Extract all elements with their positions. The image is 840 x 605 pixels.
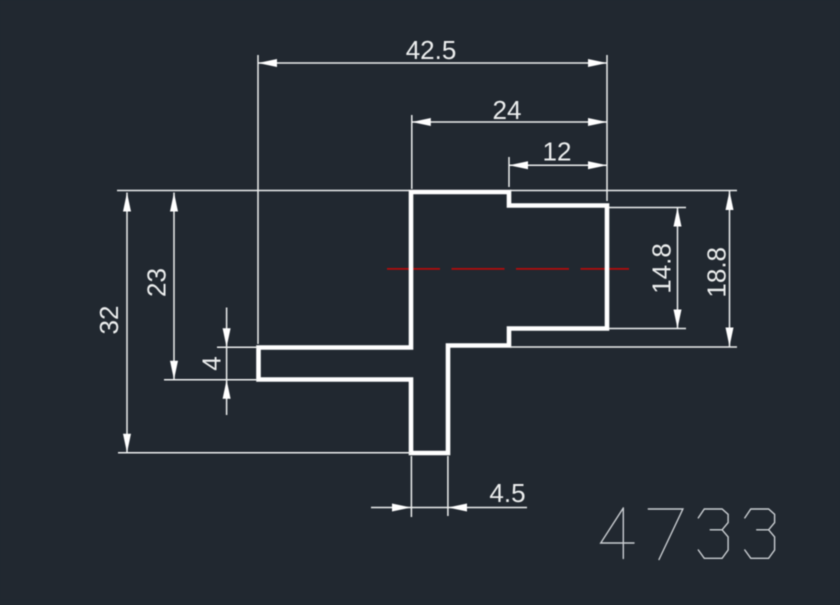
dimension 4 text (rotated)	[197, 356, 227, 370]
dimension 14.8 top arrow	[674, 208, 682, 227]
extension line right of 4.5 (x=447.9)	[447, 456, 449, 516]
dimension 4 line	[226, 308, 228, 416]
dimension 14.8 line	[677, 208, 679, 329]
dimension 12 line	[509, 164, 607, 166]
svg-text:42.5: 42.5	[406, 35, 457, 65]
dimension 23 line	[173, 193, 175, 380]
dimension 4.5 left arrow (outside)	[392, 504, 411, 512]
digit 7	[648, 509, 683, 560]
svg-text:18.8: 18.8	[702, 247, 732, 298]
dimension 32 bottom arrow	[123, 434, 131, 453]
dimension 4.5 right arrow (outside)	[448, 504, 467, 512]
digit 4	[601, 508, 634, 559]
extension line right shared by 42.5/24/12 (x=607)	[606, 55, 608, 201]
dimension 42.5 line	[258, 62, 607, 64]
extension line arm bottom (y=379.8) for 23 and 4	[164, 379, 257, 381]
dimension 4 bottom arrow (outside, pointing up)	[223, 380, 231, 399]
extension line bottom horizontal (y=452.5) for 32	[118, 452, 411, 454]
svg-text:32: 32	[94, 306, 124, 335]
dimension 24 left arrow	[412, 118, 431, 126]
svg-text:4.5: 4.5	[489, 478, 525, 508]
svg-text:4: 4	[197, 356, 227, 370]
extension line arm top (y=347.3) for 4	[217, 346, 257, 348]
dimension 18.8 top arrow	[726, 191, 734, 210]
extension line left of 24 (x=412)	[411, 115, 413, 189]
extension line top-left horizontal (y=190.5) for 32/23	[117, 190, 409, 192]
svg-text:24: 24	[493, 95, 522, 125]
dimension 24 right arrow	[588, 118, 607, 126]
dimension 18.8 text (rotated)	[702, 247, 732, 298]
dimension 23 bottom arrow	[170, 361, 178, 380]
dimension 14.8 bottom arrow	[674, 310, 682, 329]
dimension 23 text (rotated)	[142, 268, 172, 297]
dimension 32 text (rotated)	[94, 306, 124, 335]
extension line left of 4.5 (x=411.4)	[410, 456, 412, 517]
dimension 12 left arrow	[509, 161, 528, 169]
digit 3 (first)	[698, 509, 728, 558]
extension line stepped top (y=207.5) for 14.8	[609, 207, 686, 209]
extension line notch (y=328.5) for 14.8	[609, 328, 686, 330]
dimension 14.8 text (rotated)	[647, 243, 677, 294]
extension line right step bottom (y=347) for 18.8	[510, 346, 737, 348]
red dashed centerline	[387, 268, 629, 270]
svg-text:14.8: 14.8	[647, 243, 677, 294]
dimension 42.5 right arrow	[588, 59, 607, 67]
dimension 32 line	[126, 193, 128, 453]
dimension 12 right arrow	[588, 161, 607, 169]
profile outline of section 4733	[259, 192, 608, 453]
dimension 23 top arrow	[170, 193, 178, 212]
digit 3 (second)	[745, 509, 775, 558]
extension line top-right horizontal (y=190.5) for 18.8	[510, 190, 737, 192]
svg-text:12: 12	[543, 137, 572, 167]
extension line left of 42.5 (x=258)	[257, 55, 259, 344]
dimension 24 line	[412, 121, 607, 123]
dimension 32 top arrow	[123, 193, 131, 212]
extension line left of 12 (x=509)	[508, 157, 510, 187]
svg-text:23: 23	[142, 268, 172, 297]
part number 4733 (CAD stroke digits)	[601, 508, 775, 560]
dimension 18.8 line	[729, 191, 731, 347]
dimension 18.8 bottom arrow	[726, 328, 734, 347]
dimension 4 top arrow (outside, pointing down)	[223, 328, 231, 347]
dimension 42.5 left arrow	[258, 59, 277, 67]
dimension 4.5 line	[371, 507, 527, 509]
